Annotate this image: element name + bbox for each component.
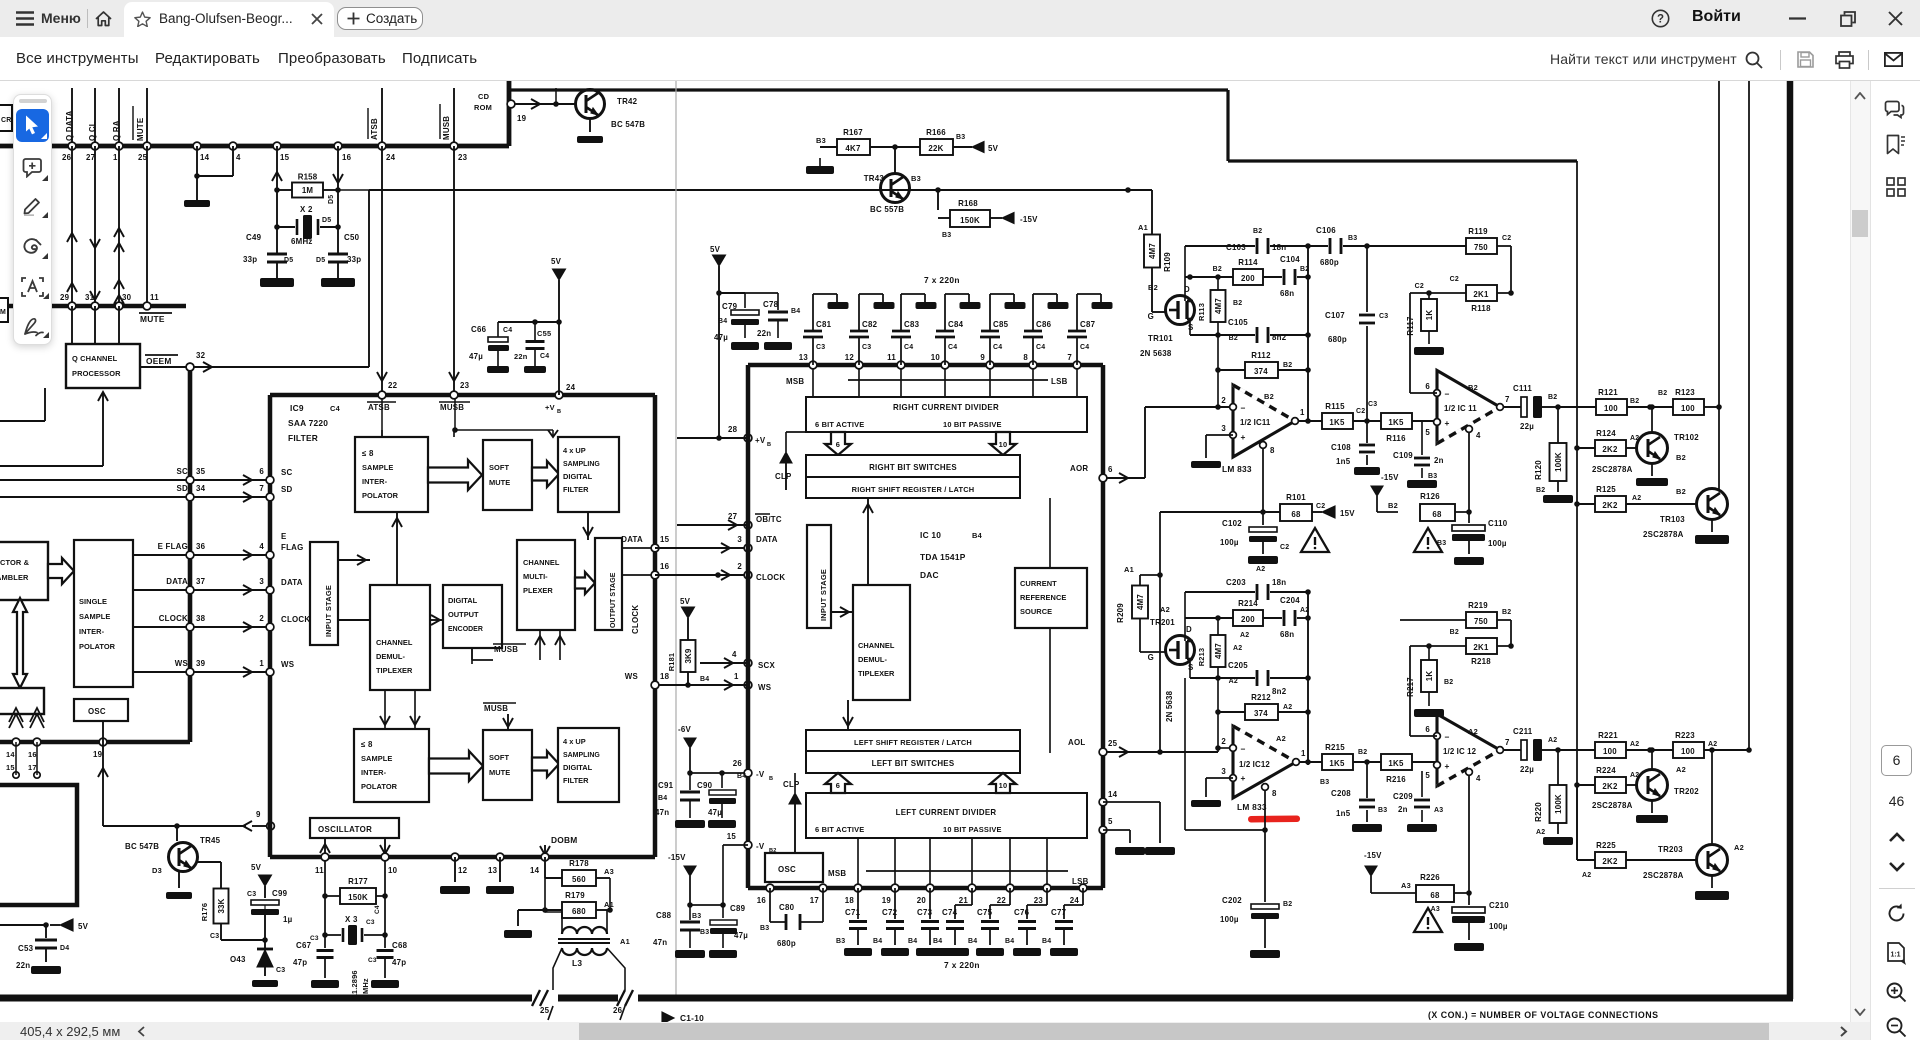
svg-text:R215: R215: [1325, 743, 1345, 752]
pin 18 IC10 bottom: [854, 884, 862, 892]
svg-text:≤ 8: ≤ 8: [361, 740, 373, 749]
svg-text:14: 14: [6, 750, 15, 759]
svg-text:MUSB: MUSB: [440, 403, 464, 412]
svg-text:E FLAG: E FLAG: [158, 542, 188, 551]
menu label: [41, 10, 81, 26]
svg-text:2K2: 2K2: [1602, 501, 1618, 510]
svg-text:CTOR &: CTOR &: [0, 558, 30, 567]
svg-text:14: 14: [530, 866, 540, 875]
left edge box CR: [0, 105, 12, 131]
svg-text:R126: R126: [1420, 492, 1440, 501]
svg-text:R158: R158: [298, 173, 318, 182]
comments icon: [1884, 100, 1906, 120]
IC9 bottom pins: [321, 853, 329, 861]
capacitor C49 33p: [276, 246, 278, 255]
svg-text:33K: 33K: [217, 898, 226, 913]
box LEFT SHIFT REGISTER/LATCH: [806, 730, 1020, 751]
IC10 pin 15 -VB2: [744, 841, 752, 849]
svg-text:B3: B3: [836, 938, 845, 945]
wire bias rail x=1577: [1576, 161, 1578, 860]
svg-text:+: +: [1444, 761, 1449, 771]
svg-text:OSC: OSC: [88, 707, 106, 716]
svg-text:47n: 47n: [653, 938, 667, 947]
svg-text:C53: C53: [18, 944, 34, 953]
warning triangle right 2: [1414, 528, 1442, 552]
svg-text:LM 833: LM 833: [1237, 802, 1267, 812]
svg-text:7: 7: [1505, 395, 1510, 404]
svg-text:R217: R217: [1406, 677, 1415, 697]
border step right: [1226, 90, 1229, 161]
bottom status bar: [0, 1022, 1870, 1040]
box INPUT STAGE IC9: [310, 542, 338, 645]
resistor R219 750: [1466, 612, 1497, 628]
wire R125 to TR103: [1626, 503, 1697, 505]
wire DATA in: [133, 589, 270, 591]
wire R223 out: [1704, 749, 1749, 751]
svg-text:R113: R113: [1197, 303, 1206, 321]
svg-text:−: −: [1444, 732, 1449, 742]
svg-text:1: 1: [259, 659, 264, 668]
svg-text:15: 15: [660, 535, 670, 544]
svg-text:CHANNEL: CHANNEL: [376, 638, 413, 647]
svg-text:C49: C49: [246, 233, 262, 242]
svg-text:IC9: IC9: [290, 403, 304, 413]
svg-text:150K: 150K: [348, 893, 368, 902]
wire bottom bus y=742: [0, 740, 190, 745]
svg-text:D5: D5: [328, 195, 335, 204]
svg-text:DIGITAL: DIGITAL: [563, 472, 593, 481]
block arrow vertical double: [13, 598, 27, 688]
svg-text:ATSB: ATSB: [370, 118, 379, 140]
box OSC (servo): [74, 699, 128, 721]
svg-text:DOBM: DOBM: [551, 835, 578, 845]
svg-text:B2: B2: [1213, 266, 1222, 273]
box SOFT MUTE 2: [483, 730, 532, 800]
resistor R115 1K5: [1322, 413, 1353, 429]
svg-text:680p: 680p: [1320, 258, 1339, 267]
svg-text:MUSB: MUSB: [494, 645, 518, 654]
block arrow interp1 to softmute1: [428, 460, 482, 490]
wire pin1 to R115: [1299, 420, 1322, 422]
pin 23 IC10 bottom: [1043, 884, 1051, 892]
svg-text:INTER-: INTER-: [361, 768, 387, 777]
svg-text:1/2 IC 11: 1/2 IC 11: [1444, 404, 1477, 413]
wires R178 R179 right: [596, 877, 610, 879]
svg-text:+: +: [1444, 418, 1449, 428]
svg-text:WS: WS: [175, 659, 188, 668]
svg-text:C108: C108: [1331, 443, 1351, 452]
wire filter1 down to mux: [587, 512, 589, 540]
ground under C102: [1248, 556, 1278, 564]
box SINGLE SAMPLE INTERPOLATOR: [74, 540, 133, 687]
svg-text:C77: C77: [1051, 908, 1067, 917]
box INPUT STAGE IC10: [807, 525, 831, 628]
svg-text:B2: B2: [1536, 487, 1545, 494]
wire R176 to C99 node: [220, 924, 222, 940]
svg-text:TR203: TR203: [1658, 845, 1683, 854]
resistor R212 374: [1218, 711, 1245, 713]
wire pin15 left: [723, 844, 748, 846]
svg-text:34: 34: [196, 484, 206, 493]
wire bus x=190: [188, 363, 193, 742]
thumbnails icon: [1886, 177, 1906, 197]
svg-text:X 3: X 3: [345, 915, 358, 924]
ground under C49: [260, 278, 294, 287]
svg-text:2K1: 2K1: [1473, 290, 1489, 299]
svg-text:MUTE: MUTE: [489, 768, 510, 777]
svg-text:SC: SC: [281, 468, 293, 477]
svg-text:18n: 18n: [1272, 243, 1286, 252]
svg-text:C3: C3: [862, 344, 871, 351]
resistor R166 22K: [920, 139, 953, 155]
svg-text:OEEM: OEEM: [146, 356, 172, 366]
svg-text:15: 15: [6, 763, 15, 772]
svg-text:B3: B3: [911, 174, 921, 183]
capacitor C73 220n: [929, 888, 931, 919]
op-amp 1/2 IC11 first: [1233, 385, 1295, 457]
capacitor C80 680p: [769, 888, 771, 922]
capacitor C210 100u: [1468, 893, 1470, 905]
wire R213 to R212 row: [1217, 667, 1219, 712]
svg-text:MUSB: MUSB: [442, 116, 451, 140]
wire R126 to C110: [1455, 511, 1469, 513]
pin 4 IC12: [1466, 769, 1473, 776]
page up chevron: [1889, 832, 1905, 842]
wire pin14 stub: [196, 146, 198, 176]
wire mux up stubs: [539, 630, 541, 660]
svg-text:100µ: 100µ: [1488, 539, 1507, 548]
crystal X2 6MHz: [274, 224, 280, 230]
box lower left: [0, 688, 44, 714]
box descrambler (partial): [0, 542, 48, 600]
op-amp 1/2 IC11 second: [1437, 371, 1500, 444]
resistor R214 200: [1233, 610, 1263, 626]
svg-text:WS: WS: [625, 672, 638, 681]
svg-text:C3: C3: [276, 967, 285, 974]
svg-text:R212: R212: [1251, 693, 1271, 702]
svg-text:R109: R109: [1163, 252, 1172, 272]
pin 20 IC10 bottom: [926, 884, 934, 892]
svg-text:A2: A2: [1276, 734, 1286, 743]
wire below Q processor: [102, 392, 104, 466]
resistor R101 68: [1280, 504, 1312, 521]
pin 5 IC11: [1434, 419, 1441, 426]
ground under C89: [709, 950, 737, 958]
svg-text:100: 100: [1604, 404, 1618, 413]
ground under C50: [321, 278, 355, 287]
IC9 box outline: [270, 393, 655, 398]
svg-text:R218: R218: [1471, 657, 1491, 666]
svg-text:1K: 1K: [1425, 671, 1434, 682]
svg-text:DATA: DATA: [756, 535, 778, 544]
svg-text:6: 6: [259, 467, 264, 476]
transistor TR202 2SC2878A: [1637, 770, 1668, 801]
svg-text:7: 7: [259, 484, 264, 493]
star icon: [134, 11, 151, 27]
svg-text:B2: B2: [1450, 629, 1459, 636]
svg-text:RIGHT BIT SWITCHES: RIGHT BIT SWITCHES: [869, 463, 957, 472]
svg-text:26: 26: [613, 1006, 623, 1015]
wire R218 to R219: [1497, 645, 1511, 647]
svg-text:PLEXER: PLEXER: [523, 586, 553, 595]
wire output stage to pin15: [622, 547, 655, 549]
ground under R220: [1543, 837, 1573, 845]
pin 25: [143, 142, 151, 150]
svg-text:POLATOR: POLATOR: [79, 642, 116, 651]
svg-text:14: 14: [1108, 790, 1118, 799]
svg-text:3: 3: [259, 577, 264, 586]
svg-text:A2: A2: [1630, 741, 1639, 748]
rotate icon: [1886, 903, 1907, 924]
svg-text:3: 3: [737, 535, 742, 544]
capacitor C102 100u: [1262, 512, 1264, 525]
svg-text:OSCILLATOR: OSCILLATOR: [318, 825, 372, 834]
svg-text:8: 8: [1272, 789, 1277, 798]
pin 5 IC10 right: [1099, 826, 1107, 834]
capacitor C203 18n: [1256, 584, 1259, 600]
svg-text:6: 6: [1425, 382, 1430, 391]
svg-text:B3: B3: [1437, 540, 1446, 547]
wire pin8 down: [1262, 449, 1264, 512]
pin 24 IC10 bottom: [1079, 884, 1087, 892]
svg-text:B4: B4: [873, 938, 882, 945]
svg-text:B2: B2: [1548, 394, 1557, 401]
svg-text:R177: R177: [348, 877, 368, 886]
svg-text:BC 547B: BC 547B: [125, 842, 159, 851]
box CHANNEL DEMULTIPLEXER IC10: [853, 585, 910, 700]
ground pin3 IC11: [1206, 434, 1233, 436]
svg-text:47p: 47p: [392, 958, 406, 967]
IC10 pin 4 SCX: [744, 659, 752, 667]
svg-text:19: 19: [517, 114, 527, 123]
resistor R217 1K: [1428, 646, 1430, 660]
ground under TR103: [1711, 519, 1713, 532]
svg-text:23: 23: [458, 153, 468, 162]
capacitor C81 220n: [809, 361, 817, 369]
svg-text:4M7: 4M7: [1148, 243, 1157, 259]
svg-text:3: 3: [1221, 767, 1226, 776]
svg-text:C99: C99: [272, 889, 288, 898]
svg-text:SOFT: SOFT: [489, 753, 509, 762]
svg-text:OSC: OSC: [778, 865, 796, 874]
resistor R116 1K5: [1381, 413, 1412, 429]
svg-text:C2: C2: [1356, 408, 1365, 415]
resistor R120 100K: [1557, 407, 1559, 443]
svg-text:5V: 5V: [680, 597, 691, 606]
block arrow 6 down: [825, 432, 851, 455]
svg-text:A2: A2: [1160, 605, 1170, 614]
svg-text:C90: C90: [697, 781, 713, 790]
svg-text:B: B: [767, 442, 771, 448]
svg-text:22: 22: [997, 896, 1007, 905]
svg-text:2N 5638: 2N 5638: [1140, 349, 1172, 358]
svg-text:FILTER: FILTER: [288, 433, 318, 443]
svg-text:750: 750: [1474, 243, 1488, 252]
wire pin7 to C211: [1504, 749, 1521, 751]
svg-text:TR201: TR201: [1150, 618, 1175, 627]
page top border: [507, 88, 1228, 91]
ground under C91: [675, 820, 705, 828]
svg-text:A2: A2: [1676, 765, 1686, 774]
svg-text:R226: R226: [1420, 873, 1440, 882]
svg-text:37: 37: [196, 577, 206, 586]
svg-text:18: 18: [660, 672, 670, 681]
svg-text:8: 8: [1023, 353, 1028, 362]
svg-text:C3: C3: [366, 919, 375, 926]
capacitor C50 33p: [337, 246, 339, 255]
svg-text:B3: B3: [1378, 807, 1387, 814]
svg-text:CHANNEL: CHANNEL: [858, 641, 895, 650]
wire top bus (Q-channel): [0, 144, 509, 149]
palette text-select tool: [21, 277, 44, 297]
wire R167 to R166: [870, 146, 920, 148]
ground under C210: [1454, 943, 1484, 951]
wire interp2 up to demux1: [384, 690, 386, 729]
svg-text:TIPLEXER: TIPLEXER: [858, 669, 895, 678]
svg-text:C78: C78: [763, 300, 779, 309]
block arrow 6 up: [825, 773, 851, 793]
pin 5 IC12: [1434, 762, 1441, 769]
box LEFT CURRENT DIVIDER: [806, 793, 1087, 838]
svg-text:B2: B2: [1468, 383, 1478, 392]
svg-text:32: 32: [196, 351, 206, 360]
svg-text:27: 27: [728, 512, 738, 521]
svg-text:REFERENCE: REFERENCE: [1020, 593, 1066, 602]
svg-text:A2: A2: [1233, 645, 1242, 652]
svg-text:B3: B3: [760, 925, 769, 932]
toolbar row: [0, 37, 1920, 81]
pin 11: [143, 302, 151, 310]
svg-text:1/2 IC12: 1/2 IC12: [1239, 760, 1270, 769]
page number box: [1881, 745, 1912, 776]
capacitor C91 47n: [689, 773, 691, 790]
svg-text:16: 16: [28, 750, 37, 759]
svg-text:6: 6: [836, 440, 840, 449]
wire pin11 down: [324, 857, 326, 948]
svg-text:24: 24: [566, 383, 576, 392]
svg-text:B4: B4: [718, 318, 727, 325]
pin 30: [115, 302, 123, 310]
wire stubs to Q channel processor: [71, 306, 73, 344]
capacitor C211 22u: [1521, 740, 1527, 760]
svg-text:26: 26: [733, 759, 743, 768]
IC10 pin 1 WS: [744, 681, 752, 689]
svg-text:23: 23: [1034, 896, 1044, 905]
svg-text:B4: B4: [737, 773, 746, 780]
svg-text:C89: C89: [730, 904, 746, 913]
svg-text:2: 2: [1221, 396, 1226, 405]
block arrow 10 up: [990, 773, 1016, 793]
svg-text:A2: A2: [1283, 704, 1292, 711]
ground under C209: [1407, 824, 1437, 832]
save icon: [1797, 51, 1814, 68]
wire 23 down to IC9 MUSB: [453, 146, 455, 392]
power 5V at C53: [50, 924, 60, 926]
block arrow softmute1 to filter1: [532, 461, 559, 487]
svg-text:B3: B3: [1320, 779, 1329, 786]
svg-text:68: 68: [1291, 510, 1301, 519]
svg-text:B4: B4: [908, 938, 917, 945]
pin 24 top: [378, 142, 386, 150]
resistor R225 2K2: [1576, 785, 1578, 860]
svg-text:-15V: -15V: [1364, 851, 1382, 860]
tab close icon: [311, 13, 323, 25]
ground under C78: [764, 342, 792, 350]
svg-text:C106: C106: [1316, 226, 1336, 235]
svg-text:C4: C4: [1036, 344, 1045, 351]
svg-text:C204: C204: [1280, 596, 1300, 605]
svg-text:B3: B3: [1348, 235, 1357, 242]
capacitor C208 1n5: [1366, 762, 1368, 798]
svg-text:BC 547B: BC 547B: [611, 120, 645, 129]
svg-text:100K: 100K: [1554, 794, 1563, 814]
svg-text:A2: A2: [1548, 737, 1557, 744]
palette pencil tool: [22, 196, 43, 216]
svg-text:1/2 IC11: 1/2 IC11: [1240, 418, 1271, 427]
wire R216 to pin5: [1412, 761, 1437, 763]
wire demux to right shift reg: [867, 498, 869, 585]
wire rail to R101: [1160, 511, 1280, 513]
svg-text:16: 16: [757, 896, 767, 905]
capacitor C89 47u: [722, 905, 724, 918]
svg-text:C4: C4: [330, 404, 341, 413]
palette drag handle: [19, 99, 47, 103]
wire MUTE down: [146, 146, 148, 306]
svg-text:1M: 1M: [302, 186, 314, 195]
svg-text:C4: C4: [540, 353, 549, 360]
svg-text:R176: R176: [200, 903, 209, 922]
svg-text:D5: D5: [284, 257, 293, 264]
svg-text:C210: C210: [1489, 901, 1509, 910]
svg-text:8: 8: [1270, 446, 1275, 455]
block arrow to interpolator: [48, 558, 74, 584]
svg-text:MUSB: MUSB: [484, 704, 508, 713]
wire WS to IC10: [655, 684, 748, 686]
ground under TR102: [1651, 463, 1653, 476]
wire R118 to R119: [1497, 292, 1511, 294]
svg-text:R117: R117: [1406, 316, 1415, 336]
svg-text:C209: C209: [1393, 792, 1413, 801]
svg-text:C86: C86: [1036, 320, 1052, 329]
svg-text:B2: B2: [1630, 398, 1639, 405]
svg-text:B2: B2: [1502, 609, 1511, 616]
svg-text:C68: C68: [392, 941, 408, 950]
svg-text:38: 38: [196, 614, 206, 623]
pin 31: [91, 302, 99, 310]
svg-text:C109: C109: [1393, 451, 1413, 460]
box Q CHANNEL PROCESSOR: [66, 344, 140, 388]
svg-text:−: −: [1240, 744, 1245, 754]
svg-text:A2: A2: [1536, 829, 1545, 836]
pin 2 IC11: [1230, 404, 1237, 411]
svg-text:SCX: SCX: [758, 661, 775, 670]
svg-text:-15V: -15V: [1020, 215, 1038, 224]
svg-text:FLAG: FLAG: [281, 543, 303, 552]
svg-text:12: 12: [458, 866, 468, 875]
svg-text:2: 2: [259, 614, 264, 623]
home icon: [95, 11, 112, 27]
svg-text:C102: C102: [1222, 519, 1242, 528]
block arrow 10 down: [990, 432, 1016, 455]
svg-text:1: 1: [1300, 408, 1305, 417]
ground pin 14: [1103, 801, 1160, 803]
border crossing ticks: [532, 990, 540, 1006]
svg-text:2SC2878A: 2SC2878A: [1643, 871, 1684, 880]
box bottom-left (thick): [0, 785, 77, 905]
bookmarks icon: [1886, 134, 1905, 155]
capacitor C67 47p: [317, 949, 334, 952]
box LEFT BIT SWITCHES: [806, 751, 1020, 773]
